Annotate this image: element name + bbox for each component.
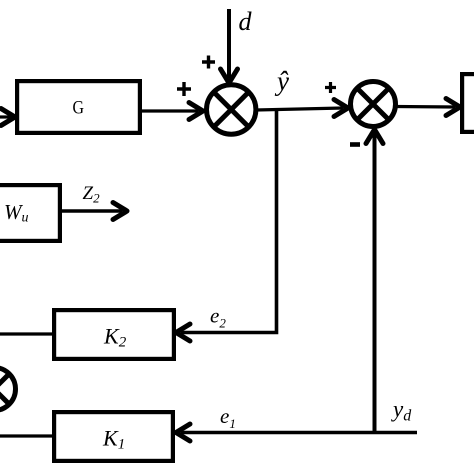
wire d input: [227, 9, 231, 78]
output block (partially visible at right edge): [462, 74, 474, 132]
arrowhead into output block: [446, 99, 460, 116]
block K2: [54, 310, 174, 359]
arrowhead into junction 2 bottom: [366, 130, 383, 144]
summing junction U3 (partially visible at left edge): [0, 368, 16, 411]
svg-text:d: d: [239, 7, 253, 36]
wire K2 output: [0, 332, 52, 335]
label plus left of junction 2: [325, 82, 336, 93]
arrowhead Z2 output: [113, 203, 127, 220]
svg-text:G: G: [73, 98, 85, 119]
svg-text:ŷ: ŷ: [274, 66, 289, 96]
wire minus feedback vertical from yd line: [373, 134, 377, 433]
wire G to junction 1: [142, 109, 198, 112]
label plus above junction 1: [202, 56, 215, 69]
arrowhead into K1: [176, 424, 190, 441]
block G: [17, 81, 140, 133]
summing junction U1: [207, 85, 256, 134]
block Wu: [0, 185, 60, 241]
arrowhead into G: [1, 109, 15, 126]
label plus left of junction 1: [177, 82, 191, 96]
wire branch from y-hat node down to K2: [181, 111, 277, 333]
wire yd bottom horizontal: [181, 431, 417, 435]
arrowhead into junction 2: [334, 100, 348, 117]
summing junction U2: [351, 82, 396, 127]
wire junction 2 to output block: [395, 105, 455, 109]
arrowhead into junction 1: [189, 103, 203, 120]
arrowhead d into junction 1: [221, 69, 238, 83]
label minus: [350, 142, 360, 147]
arrowhead into K2: [176, 324, 190, 341]
wire K1 output: [0, 434, 52, 437]
wire Wu output Z2: [62, 209, 122, 212]
wire junction 1 to junction 2: [256, 108, 343, 110]
wire input to G: [0, 115, 12, 118]
block K1: [54, 412, 173, 461]
